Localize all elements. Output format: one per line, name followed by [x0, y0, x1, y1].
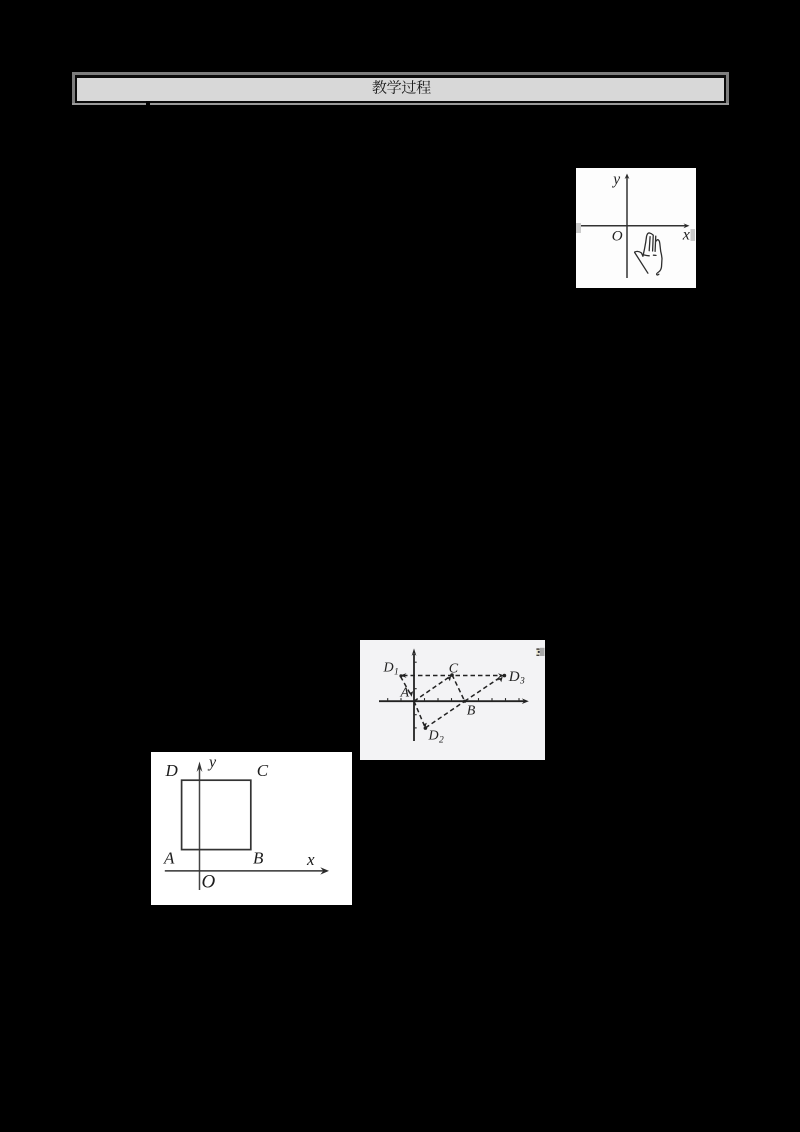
svg-text:C: C — [257, 761, 269, 780]
svg-text:y: y — [207, 754, 217, 771]
svg-text:A: A — [399, 685, 409, 700]
svg-text:B: B — [253, 849, 264, 868]
svg-text:D: D — [165, 761, 179, 780]
svg-text:O: O — [202, 872, 216, 893]
svg-text:3: 3 — [519, 676, 525, 686]
svg-text:D: D — [382, 660, 393, 675]
svg-text:1: 1 — [394, 667, 399, 677]
svg-text:y: y — [611, 171, 620, 188]
svg-text:C: C — [448, 661, 458, 676]
svg-text:B: B — [466, 703, 475, 718]
svg-text:D: D — [507, 668, 519, 684]
svg-text:D: D — [427, 728, 438, 743]
svg-text:A: A — [163, 849, 175, 868]
svg-text:x: x — [306, 850, 315, 869]
svg-text:2: 2 — [439, 735, 444, 745]
svg-text:O: O — [612, 229, 623, 245]
svg-text:x: x — [682, 226, 690, 243]
